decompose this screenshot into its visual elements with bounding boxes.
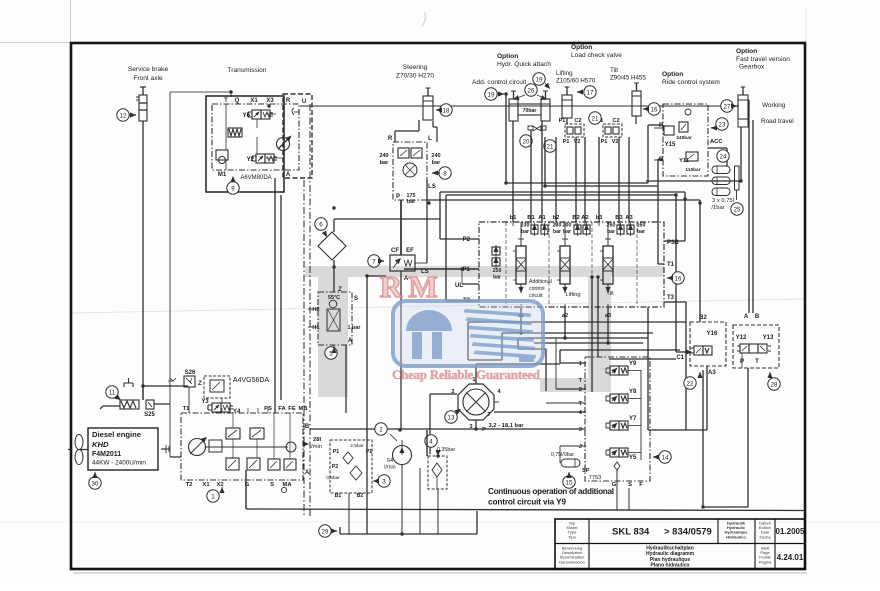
svg-text:01.2005: 01.2005 bbox=[776, 527, 805, 536]
svg-text:H1: H1 bbox=[312, 325, 319, 331]
svg-text:240bar: 240bar bbox=[676, 135, 692, 141]
svg-text:control: control bbox=[529, 286, 545, 292]
svg-text:Z70/30 H270: Z70/30 H270 bbox=[396, 73, 434, 80]
svg-text:R: R bbox=[380, 269, 403, 304]
svg-text:LS: LS bbox=[428, 184, 436, 190]
svg-text:Steering: Steering bbox=[403, 64, 428, 71]
svg-text:S: S bbox=[628, 482, 632, 488]
svg-text:Tilt: Tilt bbox=[606, 291, 614, 297]
svg-text:3 x 0,75l: 3 x 0,75l bbox=[712, 198, 734, 204]
svg-text:Z: Z bbox=[198, 381, 202, 387]
svg-text:F4M2011: F4M2011 bbox=[92, 451, 121, 458]
svg-text:CF: CF bbox=[391, 248, 399, 254]
svg-text:b1: b1 bbox=[510, 215, 518, 221]
svg-text:P: P bbox=[482, 427, 486, 433]
svg-text:bar: bar bbox=[380, 160, 390, 166]
svg-text:T2: T2 bbox=[186, 482, 193, 488]
svg-text:T3: T3 bbox=[667, 295, 675, 301]
svg-text:Y9: Y9 bbox=[629, 361, 637, 367]
svg-text:X1: X1 bbox=[202, 482, 210, 488]
svg-text:U: U bbox=[302, 99, 306, 105]
svg-text:R: R bbox=[388, 136, 393, 142]
svg-text:23: 23 bbox=[719, 121, 726, 128]
svg-text:0,5bar: 0,5bar bbox=[326, 475, 340, 481]
svg-text:S: S bbox=[354, 296, 358, 302]
svg-text:Option: Option bbox=[662, 71, 683, 78]
svg-text:bar: bar bbox=[563, 229, 571, 235]
svg-text:2: 2 bbox=[379, 426, 383, 433]
svg-text:A: A bbox=[286, 172, 291, 178]
svg-text:1: 1 bbox=[211, 493, 215, 500]
svg-text:/min: /min bbox=[311, 444, 322, 450]
svg-text:21: 21 bbox=[592, 115, 599, 122]
svg-text:13: 13 bbox=[448, 414, 455, 421]
svg-text:Gearbox: Gearbox bbox=[739, 64, 765, 71]
svg-text:8: 8 bbox=[443, 170, 447, 177]
svg-text:28: 28 bbox=[771, 381, 778, 388]
svg-text:3: 3 bbox=[579, 427, 582, 433]
svg-text:SKL 834: SKL 834 bbox=[612, 527, 650, 538]
svg-text:B2: B2 bbox=[699, 315, 707, 321]
svg-text:A: A bbox=[744, 314, 749, 320]
svg-text:Y7: Y7 bbox=[629, 416, 637, 422]
svg-text:bar: bar bbox=[493, 275, 501, 281]
svg-text:T: T bbox=[579, 401, 583, 407]
svg-text:64: 64 bbox=[387, 458, 393, 464]
svg-text:230: 230 bbox=[553, 223, 562, 229]
svg-text:3,2 - 18,1 bar: 3,2 - 18,1 bar bbox=[488, 423, 524, 429]
svg-text:200: 200 bbox=[563, 223, 572, 229]
svg-text:Y2: Y2 bbox=[247, 157, 255, 163]
svg-text:27: 27 bbox=[724, 103, 731, 110]
svg-text:Y15: Y15 bbox=[665, 142, 676, 148]
svg-text:16: 16 bbox=[675, 275, 682, 282]
svg-text:1: 1 bbox=[579, 361, 582, 367]
svg-text:Hydr. Quick attach: Hydr. Quick attach bbox=[497, 61, 551, 68]
svg-text:S26: S26 bbox=[185, 370, 196, 376]
svg-text:X2: X2 bbox=[216, 482, 223, 488]
svg-text:A6VM80DA: A6VM80DA bbox=[240, 175, 271, 181]
svg-text:P1: P1 bbox=[463, 267, 471, 273]
svg-text:30: 30 bbox=[92, 480, 99, 487]
svg-text:Y3: Y3 bbox=[201, 399, 209, 405]
svg-text:0,75l/0bar: 0,75l/0bar bbox=[551, 452, 574, 458]
svg-text:P1: P1 bbox=[366, 449, 372, 455]
svg-text:P: P bbox=[396, 194, 400, 200]
svg-text:19: 19 bbox=[536, 76, 543, 83]
svg-text:7753: 7753 bbox=[589, 475, 601, 481]
svg-text:P3B: P3B bbox=[667, 240, 679, 246]
svg-text:44KW - 2400U/min: 44KW - 2400U/min bbox=[92, 460, 146, 467]
svg-text:l/min: l/min bbox=[384, 465, 395, 471]
svg-text:20: 20 bbox=[523, 138, 530, 145]
svg-text:11: 11 bbox=[109, 389, 116, 396]
svg-text:ACC: ACC bbox=[710, 139, 723, 145]
svg-text:Option: Option bbox=[497, 53, 518, 60]
svg-text:B1: B1 bbox=[527, 215, 535, 221]
svg-text:P2: P2 bbox=[463, 237, 471, 243]
svg-text:X1: X1 bbox=[250, 98, 258, 104]
svg-text:240: 240 bbox=[431, 153, 440, 159]
svg-text:25: 25 bbox=[734, 206, 741, 213]
svg-text:Working: Working bbox=[762, 102, 786, 109]
svg-text:110bar: 110bar bbox=[685, 167, 700, 173]
svg-text:Q: Q bbox=[235, 98, 240, 104]
svg-text:S25: S25 bbox=[144, 412, 155, 418]
svg-text:A4VG56DA: A4VG56DA bbox=[233, 377, 270, 384]
svg-text:Y11: Y11 bbox=[679, 158, 689, 164]
svg-text:F: F bbox=[639, 482, 643, 488]
svg-text:1 bar: 1 bar bbox=[348, 325, 362, 331]
svg-text:/1bar: /1bar bbox=[711, 205, 724, 211]
svg-text:bar: bar bbox=[553, 229, 561, 235]
svg-text:Road travel: Road travel bbox=[761, 118, 794, 125]
svg-text:H2: H2 bbox=[312, 307, 319, 313]
svg-text:Option: Option bbox=[571, 44, 592, 51]
svg-text:X3: X3 bbox=[266, 98, 274, 104]
svg-text:T1: T1 bbox=[667, 262, 675, 268]
svg-text:Add. control circuit: Add. control circuit bbox=[472, 79, 526, 86]
svg-text:Ride control system: Ride control system bbox=[662, 79, 720, 86]
svg-text:Lifting: Lifting bbox=[566, 292, 581, 298]
svg-text:B: B bbox=[305, 424, 310, 430]
svg-text:J: J bbox=[579, 444, 582, 450]
svg-text:R: R bbox=[286, 98, 291, 104]
svg-text:Fast travel version: Fast travel version bbox=[736, 56, 790, 63]
svg-text:B3: B3 bbox=[615, 215, 623, 221]
svg-text:L: L bbox=[428, 136, 432, 142]
svg-text:Load check valve: Load check valve bbox=[571, 52, 622, 59]
svg-text:bar: bar bbox=[637, 229, 645, 235]
svg-text:6: 6 bbox=[319, 221, 323, 228]
svg-text:G: G bbox=[245, 482, 250, 488]
svg-text:3: 3 bbox=[382, 478, 386, 485]
svg-text:FA: FA bbox=[278, 406, 286, 412]
svg-text:4.24.01: 4.24.01 bbox=[777, 553, 804, 562]
svg-text:B: B bbox=[755, 314, 760, 320]
svg-text:A: A bbox=[348, 338, 353, 344]
svg-text:SP: SP bbox=[582, 468, 590, 474]
svg-text:2,5bar: 2,5bar bbox=[350, 443, 364, 449]
svg-text:Z90/45 H455: Z90/45 H455 bbox=[610, 75, 646, 82]
svg-text:Plano hidráulico: Plano hidráulico bbox=[651, 563, 690, 569]
svg-text:Y13: Y13 bbox=[763, 335, 774, 341]
svg-text:A3: A3 bbox=[708, 370, 716, 376]
svg-text:18: 18 bbox=[443, 107, 450, 114]
svg-text:Y6: Y6 bbox=[243, 113, 251, 119]
svg-text:22: 22 bbox=[687, 380, 694, 387]
svg-text:P1: P1 bbox=[333, 449, 339, 455]
svg-text:KHD: KHD bbox=[92, 440, 109, 449]
svg-text:P2: P2 bbox=[332, 464, 338, 470]
svg-text:control circuit via Y9: control circuit via Y9 bbox=[488, 498, 566, 507]
svg-text:Front axle: Front axle bbox=[133, 75, 163, 82]
svg-text:T: T bbox=[755, 359, 759, 365]
svg-text:Hidráulico: Hidráulico bbox=[726, 534, 746, 539]
svg-text:P1: P1 bbox=[601, 139, 608, 145]
svg-text:FE: FE bbox=[288, 406, 296, 412]
svg-text:V2: V2 bbox=[612, 139, 619, 145]
svg-text:circuit: circuit bbox=[529, 293, 543, 299]
svg-text:Y5: Y5 bbox=[629, 455, 637, 461]
svg-text:28l: 28l bbox=[313, 437, 321, 443]
svg-text:C1: C1 bbox=[676, 355, 684, 361]
svg-text:Denominación: Denominación bbox=[559, 559, 585, 564]
svg-text:P1: P1 bbox=[559, 118, 566, 124]
svg-text:Tipo: Tipo bbox=[568, 534, 576, 539]
svg-text:T: T bbox=[579, 378, 583, 384]
svg-text:b2: b2 bbox=[553, 215, 560, 221]
svg-text:Y16: Y16 bbox=[707, 331, 718, 337]
svg-text:B2: B2 bbox=[357, 493, 364, 499]
svg-text:B1: B1 bbox=[335, 493, 342, 499]
svg-text:19: 19 bbox=[488, 91, 495, 98]
svg-text:240: 240 bbox=[379, 153, 388, 159]
svg-text:A1: A1 bbox=[538, 215, 546, 221]
svg-text:15: 15 bbox=[566, 479, 573, 486]
svg-text:16: 16 bbox=[651, 106, 658, 113]
svg-text:2: 2 bbox=[579, 387, 582, 393]
svg-text:b3: b3 bbox=[596, 215, 604, 221]
svg-text:A3: A3 bbox=[625, 215, 633, 221]
svg-text:S: S bbox=[270, 482, 274, 488]
svg-text:Option: Option bbox=[736, 48, 757, 55]
svg-text:V2: V2 bbox=[574, 139, 581, 145]
svg-text:Cheap Reliable Guaranteed: Cheap Reliable Guaranteed bbox=[392, 367, 541, 382]
svg-text:4: 4 bbox=[429, 438, 433, 445]
svg-text:bar: bar bbox=[407, 199, 416, 205]
svg-text:EF: EF bbox=[406, 248, 414, 254]
svg-text:C2: C2 bbox=[574, 118, 581, 124]
svg-text:Y4: Y4 bbox=[233, 409, 241, 415]
svg-text:Página: Página bbox=[759, 559, 772, 564]
svg-text:160: 160 bbox=[637, 223, 646, 229]
svg-text:Service brake: Service brake bbox=[128, 66, 169, 73]
svg-text:26: 26 bbox=[528, 87, 535, 94]
svg-text:14: 14 bbox=[662, 454, 669, 461]
svg-text:> 834/0579: > 834/0579 bbox=[664, 527, 712, 538]
svg-text:Y8: Y8 bbox=[629, 389, 637, 395]
svg-text:Y12: Y12 bbox=[736, 335, 747, 341]
svg-text:B2: B2 bbox=[572, 215, 579, 221]
svg-text:Tilt: Tilt bbox=[610, 67, 618, 74]
svg-text:21: 21 bbox=[547, 143, 554, 150]
svg-text:P1: P1 bbox=[563, 139, 570, 145]
svg-text:24: 24 bbox=[720, 153, 727, 160]
svg-text:A: A bbox=[305, 470, 310, 476]
svg-text:70bar: 70bar bbox=[523, 108, 537, 114]
svg-text:12: 12 bbox=[120, 112, 127, 119]
svg-text:T: T bbox=[224, 98, 228, 104]
svg-text:Additional: Additional bbox=[529, 279, 552, 285]
svg-text:250: 250 bbox=[493, 268, 502, 274]
svg-text:bar: bar bbox=[432, 160, 442, 166]
svg-text:7: 7 bbox=[372, 258, 376, 265]
svg-text:29: 29 bbox=[322, 528, 329, 535]
svg-text:M1: M1 bbox=[218, 172, 227, 178]
svg-text:C2: C2 bbox=[612, 118, 619, 124]
svg-text:17: 17 bbox=[587, 89, 594, 96]
svg-text:230: 230 bbox=[521, 223, 530, 229]
svg-text:Transmission: Transmission bbox=[228, 67, 267, 74]
svg-text:Fecha: Fecha bbox=[759, 534, 771, 539]
svg-text:Diesel engine: Diesel engine bbox=[92, 430, 141, 439]
svg-text:bar: bar bbox=[521, 229, 529, 235]
svg-text:9: 9 bbox=[231, 185, 235, 192]
svg-text:Continuous operation of additi: Continuous operation of additional bbox=[488, 487, 614, 496]
svg-text:Z: Z bbox=[338, 287, 342, 293]
svg-text:A2: A2 bbox=[581, 215, 588, 221]
svg-text:M: M bbox=[408, 269, 437, 304]
svg-text:T: T bbox=[487, 412, 491, 418]
svg-text:MB: MB bbox=[298, 406, 307, 412]
svg-text:Z105/60 H570: Z105/60 H570 bbox=[556, 78, 596, 85]
svg-text:Lifting: Lifting bbox=[556, 70, 573, 77]
